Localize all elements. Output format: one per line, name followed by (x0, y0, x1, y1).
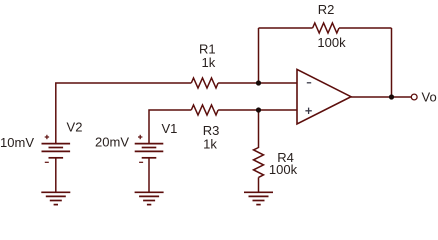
svg-text:V2: V2 (67, 120, 83, 135)
svg-text:20mV: 20mV (95, 135, 129, 150)
op-amp plus input symbol (305, 108, 311, 114)
node dot (256, 80, 261, 85)
ground (244, 192, 273, 204)
ground (41, 192, 70, 204)
wire (351, 96, 411, 98)
battery V1 (135, 135, 164, 163)
svg-text:100k: 100k (269, 162, 298, 177)
wire (55, 158, 57, 192)
wire (218, 82, 297, 84)
resistor R2 (313, 23, 339, 33)
wire (258, 28, 260, 83)
svg-text:1k: 1k (203, 136, 217, 151)
node dot (389, 94, 394, 99)
svg-text:10mV: 10mV (0, 135, 34, 150)
wire (339, 27, 392, 29)
svg-text:100k: 100k (317, 35, 346, 50)
wire (149, 110, 191, 144)
wire (258, 177, 260, 192)
svg-text:V1: V1 (161, 121, 177, 136)
resistor R1 (191, 78, 218, 88)
battery V2 (42, 135, 71, 163)
wire (218, 109, 297, 111)
wire (391, 28, 393, 97)
svg-text:1k: 1k (202, 55, 216, 70)
node dot (256, 107, 261, 112)
svg-text:Vo: Vo (422, 89, 437, 104)
terminal Vo (411, 94, 417, 100)
ground (135, 192, 164, 204)
svg-text:R2: R2 (318, 2, 335, 17)
wire (148, 158, 150, 192)
resistor R3 (191, 105, 218, 115)
op-amp U1 (297, 69, 351, 124)
wire (259, 27, 313, 29)
wire (258, 110, 260, 148)
wire (56, 83, 192, 144)
op-amp minus input symbol (307, 82, 311, 84)
resistor R4 (254, 148, 264, 178)
